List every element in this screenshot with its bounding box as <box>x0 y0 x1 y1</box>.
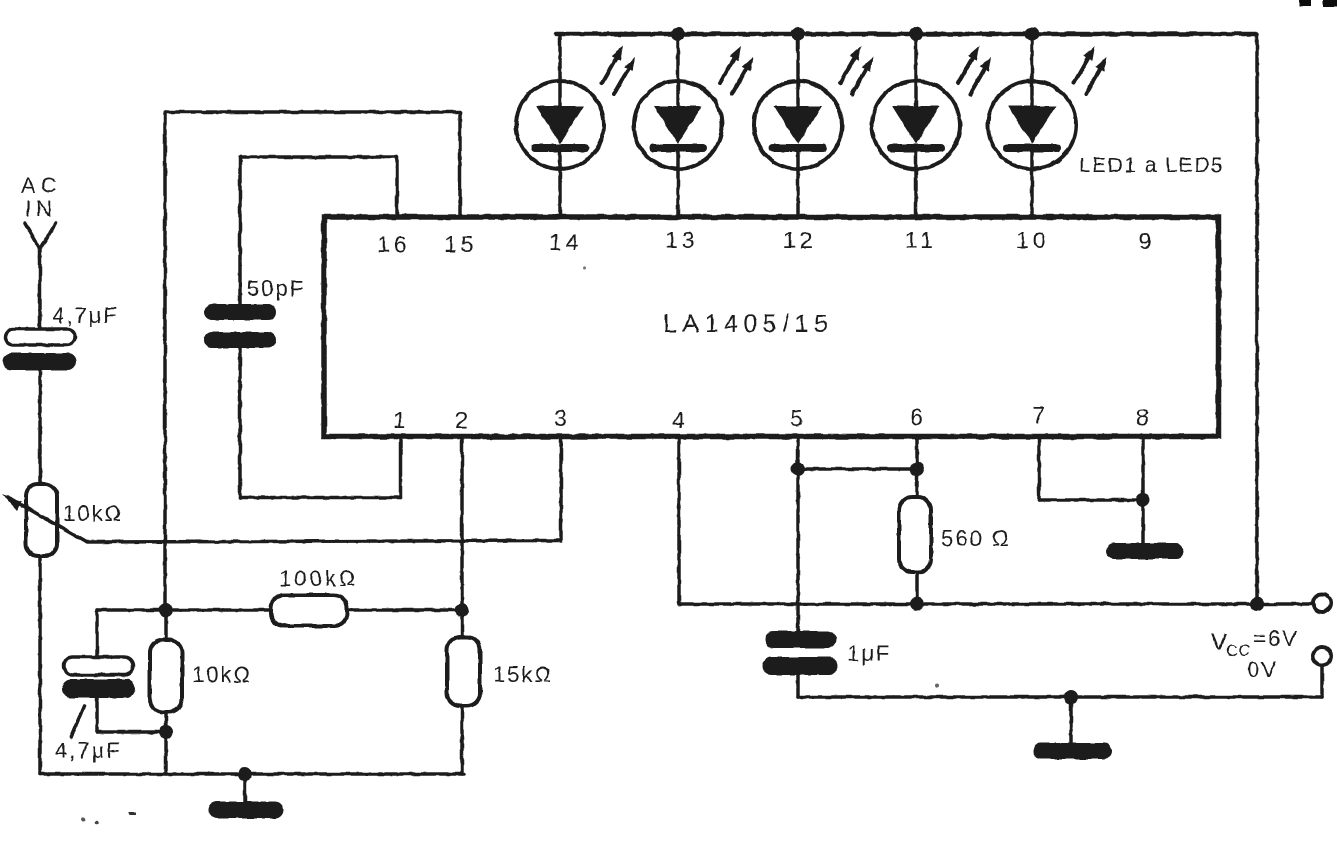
LED D1 light arrow b <box>614 57 635 94</box>
svg-text:LED1 a LED5: LED1 a LED5 <box>1079 154 1224 177</box>
capacitor C2 top plate <box>204 304 276 320</box>
wire inner loop top horizontal (pin16 net) <box>240 155 397 159</box>
svg-text:9: 9 <box>1139 228 1152 254</box>
resistor R3 10k body <box>150 640 182 712</box>
wire R5 bottom to rail <box>460 706 464 774</box>
scan marks <box>81 267 939 825</box>
capacitor C4 top plate <box>64 657 133 675</box>
potentiometer R1 arrowhead <box>2 494 22 511</box>
wire C4 bottom vertical <box>95 699 99 732</box>
LED D5 cathode bar <box>1007 144 1057 152</box>
node junction dot LED2 <box>671 27 685 41</box>
svg-text:16: 16 <box>377 231 411 257</box>
capacitor C1 top plate <box>5 329 75 345</box>
node junction dot LED3 <box>791 27 805 41</box>
LED D4 cathode bar <box>891 144 941 152</box>
node junction dot C4 10k <box>159 725 173 739</box>
svg-text:560 Ω: 560 Ω <box>941 526 1010 551</box>
wire 100k left end down to C4 <box>95 610 99 658</box>
LED D1 wire cathode to pin14 <box>558 148 562 218</box>
svg-text:10: 10 <box>1016 227 1050 253</box>
svg-text:15: 15 <box>444 231 478 257</box>
svg-text:11: 11 <box>905 227 937 253</box>
node junction dot LED4 <box>909 27 923 41</box>
node junction dot pin5 link <box>791 462 805 476</box>
page artifact top-right mark 1 <box>1299 0 1311 6</box>
svg-text:6: 6 <box>910 404 923 430</box>
ground bar 0V rail <box>1041 743 1104 759</box>
svg-text:=6V: =6V <box>1253 626 1299 651</box>
LED D3 circle <box>754 81 842 169</box>
LED D5 light arrow a <box>1074 46 1095 83</box>
LED D5 circle <box>988 81 1076 169</box>
svg-text:12: 12 <box>783 227 817 253</box>
LED D1 light arrow a <box>602 46 623 83</box>
LED D2 light arrow b <box>732 57 753 94</box>
svg-text:15kΩ: 15kΩ <box>493 662 553 687</box>
wire 100k net horizontal <box>97 608 462 612</box>
wire pin4 vertical <box>677 436 681 604</box>
LED D1 circle <box>516 81 604 169</box>
svg-text:50pF: 50pF <box>247 276 305 301</box>
svg-text:10kΩ: 10kΩ <box>63 501 123 526</box>
LED D3 light arrow b <box>852 57 873 94</box>
wire pin7-pin8 link <box>1039 498 1143 502</box>
wire top LED bus <box>556 32 1257 37</box>
page artifact top-right mark 2 <box>1323 0 1337 7</box>
svg-text:AC: AC <box>21 173 62 198</box>
wire antenna to C1 <box>38 256 42 330</box>
svg-text:4,7μF: 4,7μF <box>52 303 119 328</box>
op-amp U1 LA1405/15 IC body <box>324 217 1219 437</box>
capacitor C2 bottom plate <box>204 332 276 348</box>
wire C2 bottom vertical <box>238 348 242 498</box>
wire R3 bottom to rail <box>164 712 168 774</box>
wire pin7 vertical <box>1037 436 1041 500</box>
antenna input symbol <box>25 223 56 258</box>
wire pin5-pin6 link <box>798 467 917 471</box>
wire potentiometer to bottom rail <box>38 556 42 774</box>
ground stem 0V rail <box>1069 697 1073 745</box>
LED D2 light arrow a <box>720 46 741 83</box>
wire pin6 vertical to R4 <box>915 436 919 497</box>
svg-text:14: 14 <box>549 229 583 255</box>
svg-text:1: 1 <box>393 407 406 433</box>
terminal Vcc open circle <box>1313 594 1331 612</box>
wire wiper to pin3 horizontal <box>86 541 561 543</box>
wire outer loop right vertical to pin15 <box>458 112 462 218</box>
wire C1 to potentiometer <box>38 370 42 484</box>
wire pin5 vertical <box>796 436 800 632</box>
wire 0V terminal vertical <box>1320 665 1324 697</box>
capacitor C4 bottom plate <box>62 679 135 698</box>
LED D1 wire anode <box>558 34 562 106</box>
LED D1 cathode bar <box>535 144 585 152</box>
node junction dot pin6 link <box>910 462 924 476</box>
LED D1 triangle <box>536 106 584 144</box>
LED D4 circle <box>872 81 960 169</box>
node junction dot LED5 <box>1025 27 1039 41</box>
wire pin8 vertical <box>1141 436 1145 543</box>
wire pin3 vertical <box>559 436 563 541</box>
wire right bus vertical <box>1255 34 1259 604</box>
LED D2 wire cathode to pin13 <box>676 148 680 218</box>
capacitor C3 1uF top plate <box>765 631 836 648</box>
wire R4 bottom to Vcc rail <box>915 572 919 604</box>
LED D5 light arrow b <box>1086 57 1107 94</box>
wire C3 bottom to 0V rail <box>796 675 800 697</box>
ground bar pin8 <box>1114 543 1176 559</box>
LED D3 wire anode <box>796 34 800 106</box>
svg-text:IN: IN <box>25 196 57 221</box>
LED D3 cathode bar <box>773 144 823 152</box>
node junction dot R4 Vcc <box>910 597 924 611</box>
wire C2 loop vertical to pin1 <box>399 436 403 498</box>
LED D3 triangle <box>774 106 822 144</box>
ground stem bottom rail <box>243 774 247 803</box>
wire bottom rail <box>40 772 464 776</box>
svg-text:1μF: 1μF <box>847 641 891 666</box>
svg-text:0V: 0V <box>1247 657 1278 682</box>
node junction dot pin2 100k <box>455 603 469 617</box>
node junction dot 0V ground <box>1064 690 1078 704</box>
wire outer loop top horizontal <box>165 110 460 114</box>
wire C4 to 10k bottom <box>97 730 166 734</box>
wire R3 top <box>164 610 168 640</box>
node junction dot pin8 <box>1136 493 1150 507</box>
svg-text:3: 3 <box>554 405 567 431</box>
LED D5 wire anode <box>1030 34 1034 106</box>
wire pin2 vertical <box>460 436 464 637</box>
wire Vcc rail horizontal <box>679 602 1313 606</box>
wire C2 loop bottom horizontal <box>240 496 401 500</box>
LED D3 wire cathode to pin12 <box>796 148 800 218</box>
svg-text:V: V <box>1211 629 1227 656</box>
wire outer loop left vertical (pin15 net) <box>163 112 167 611</box>
node junction dot bottom ground <box>238 767 252 781</box>
capacitor C3 1uF bottom plate <box>762 657 838 675</box>
LED D5 wire cathode to pin10 <box>1030 148 1034 218</box>
ground bar bottom rail <box>217 802 275 819</box>
wire inner loop vertical to C2 <box>238 157 242 305</box>
svg-text:2: 2 <box>455 407 468 433</box>
svg-text:100kΩ: 100kΩ <box>279 566 358 591</box>
svg-text:7: 7 <box>1032 402 1045 428</box>
svg-text:LA1405/15: LA1405/15 <box>663 310 833 338</box>
svg-text:8: 8 <box>1136 404 1149 430</box>
terminal 0V open circle <box>1313 647 1331 665</box>
capacitor C4 label slash <box>71 706 84 737</box>
resistor R4 560 body <box>899 497 931 572</box>
LED D4 wire cathode to pin11 <box>914 148 918 218</box>
LED D2 wire anode <box>676 34 680 106</box>
svg-text:5: 5 <box>790 405 803 431</box>
wire inner loop vertical to pin16 <box>395 157 399 218</box>
LED D4 light arrow a <box>958 46 979 83</box>
LED D5 triangle <box>1008 106 1056 144</box>
resistor R2 100k body <box>271 595 347 626</box>
LED D2 triangle <box>654 106 702 144</box>
svg-text:10kΩ: 10kΩ <box>192 662 252 687</box>
LED D2 cathode bar <box>653 144 703 152</box>
LED D4 triangle <box>892 106 940 144</box>
node junction dot left vert 100k <box>159 603 173 617</box>
wire 0V rail horizontal <box>798 695 1322 699</box>
LED D2 circle <box>634 81 722 169</box>
node junction dot right bus Vcc <box>1250 597 1264 611</box>
resistor R5 15k body <box>447 637 480 706</box>
svg-text:13: 13 <box>665 227 699 253</box>
potentiometer R1 wiper arrow <box>8 497 86 542</box>
LED D4 wire anode <box>914 34 918 106</box>
svg-text:4: 4 <box>672 407 685 433</box>
svg-text:4,7μF: 4,7μF <box>55 738 122 763</box>
LED D4 light arrow b <box>970 57 991 94</box>
LED D3 light arrow a <box>840 46 861 83</box>
potentiometer R1 body <box>26 484 57 556</box>
capacitor C1 bottom plate <box>3 353 76 370</box>
